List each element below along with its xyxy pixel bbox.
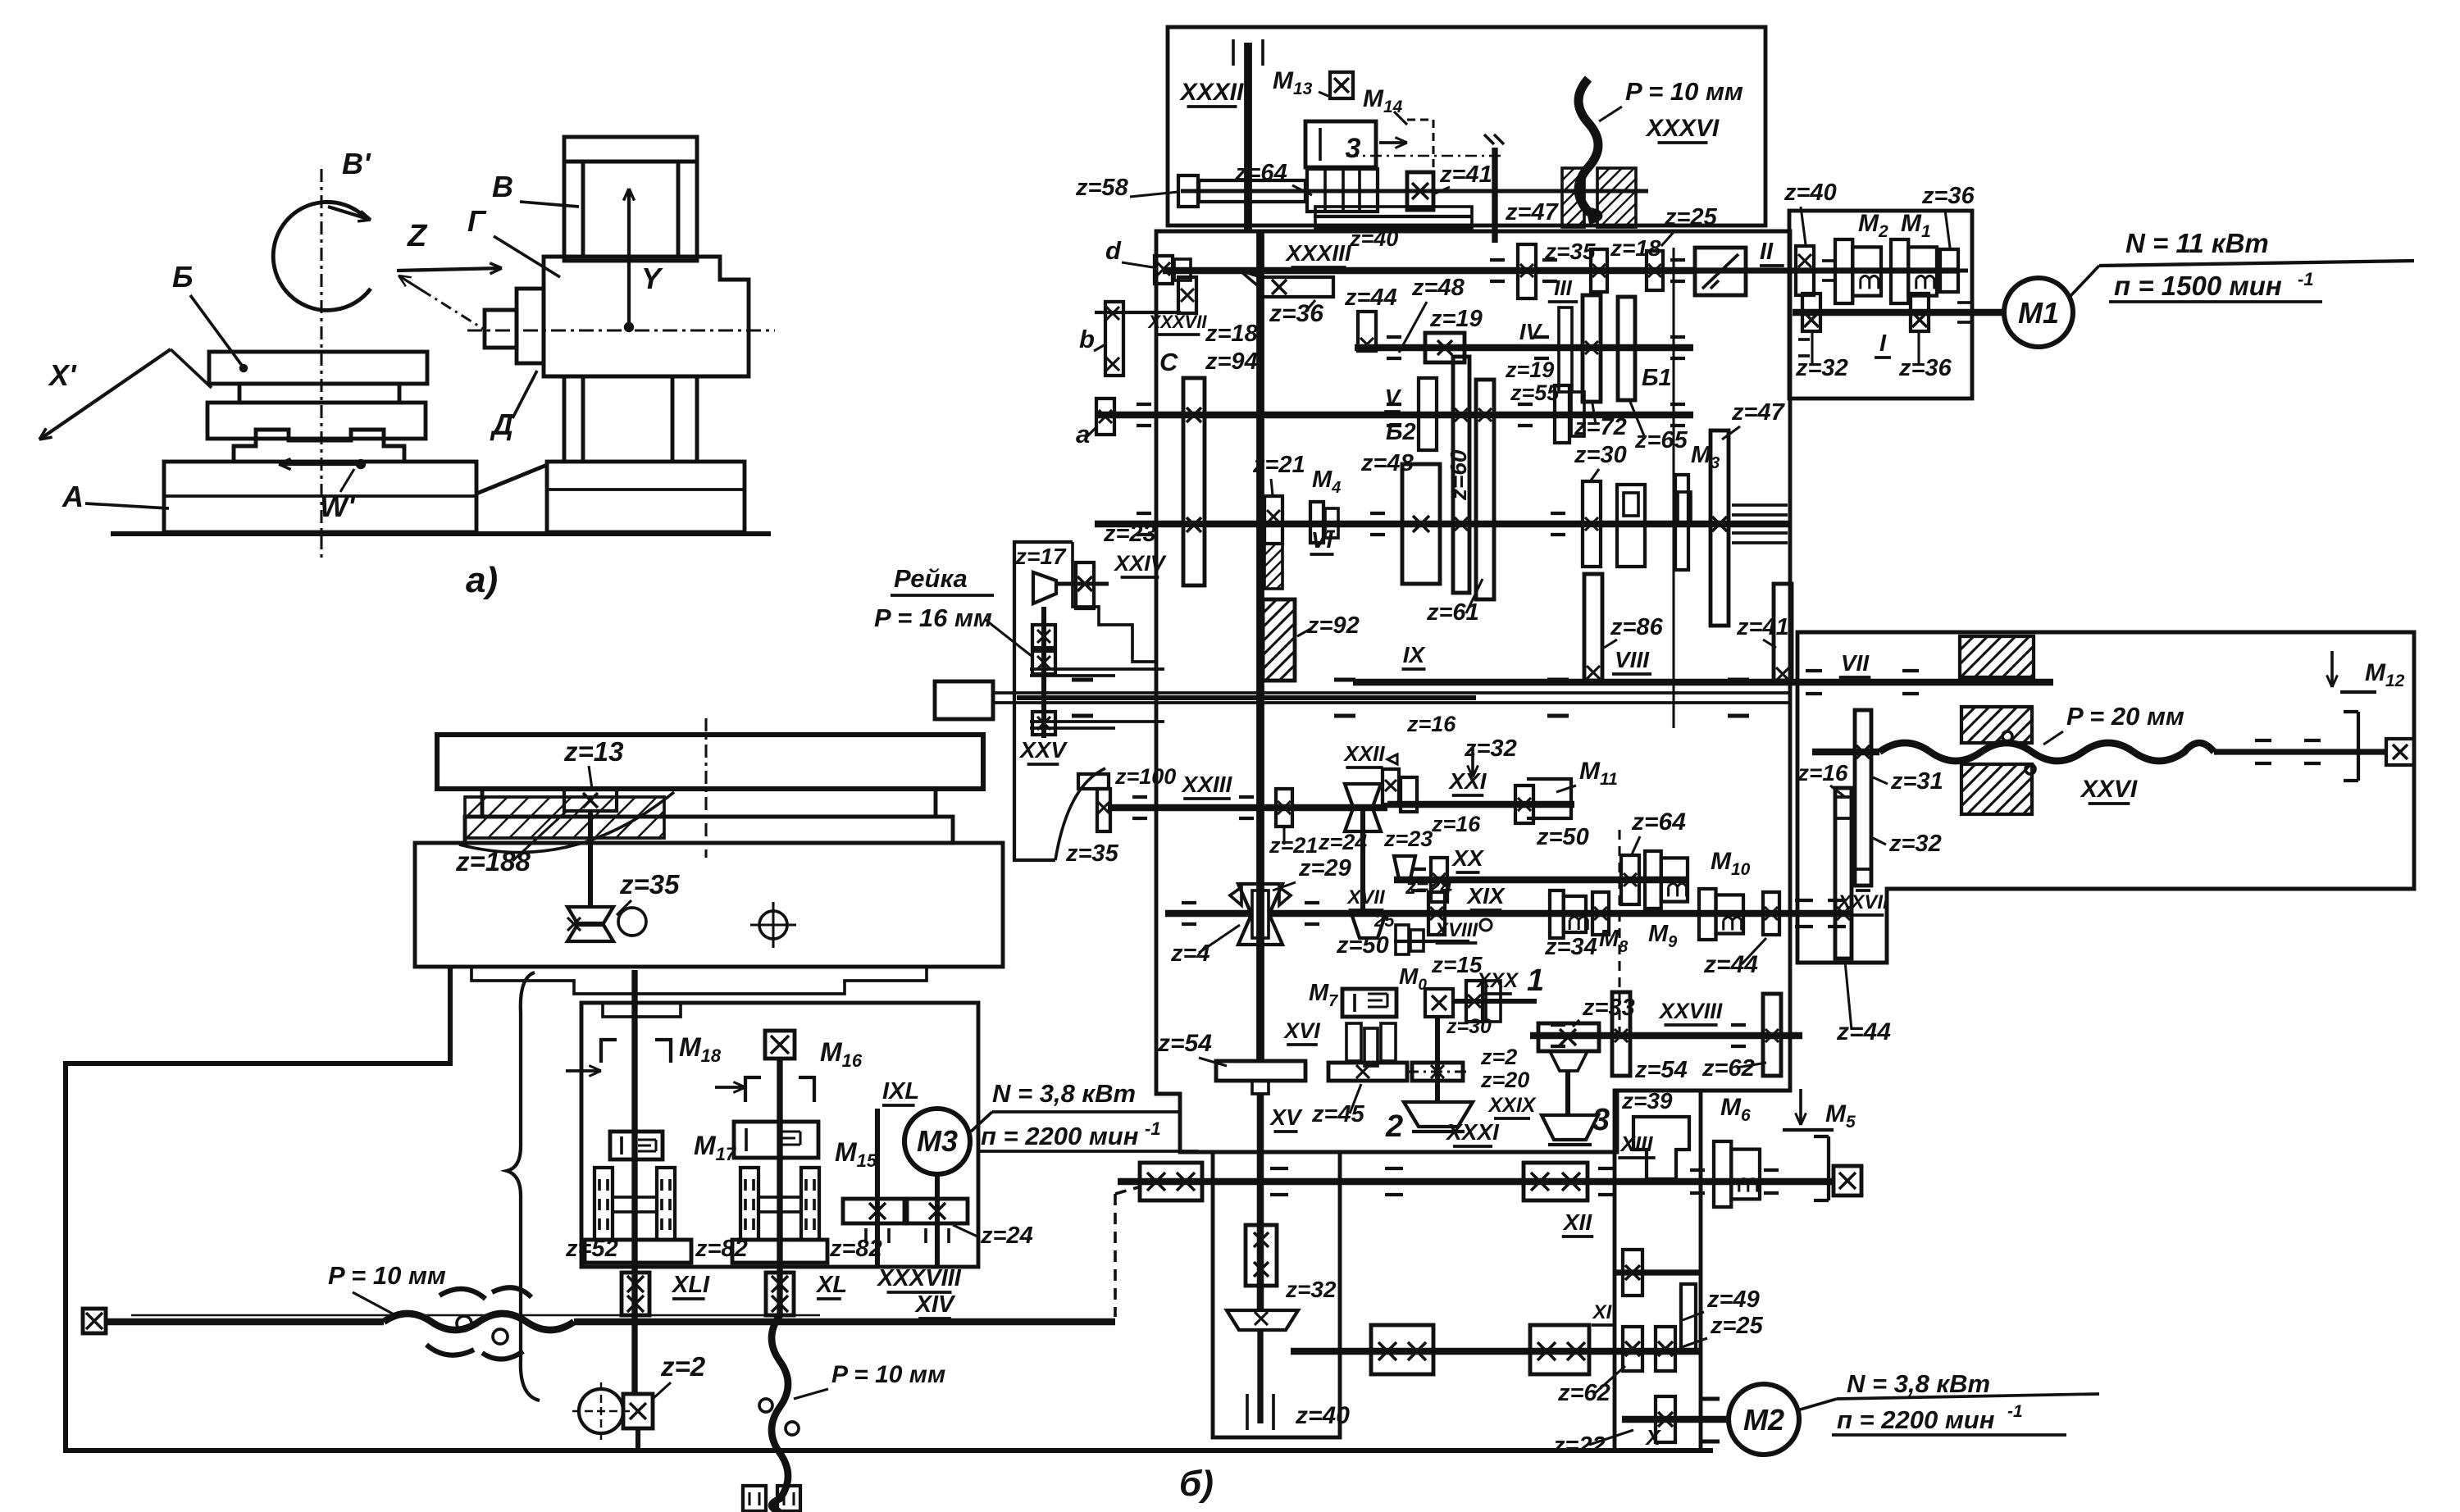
svg-text:P = 16 мм: P = 16 мм <box>874 603 992 632</box>
gear z=86 tall <box>1584 574 1602 681</box>
solenoid 3 box <box>1305 121 1376 167</box>
svg-text:2: 2 <box>1385 1109 1403 1144</box>
vertical shaft from worm <box>588 811 593 907</box>
svg-text:z=15: z=15 <box>1431 952 1483 977</box>
svg-text:B': B' <box>342 147 371 180</box>
gear z=82 plate <box>732 1240 827 1263</box>
gear XXVII z=44 tall <box>1835 788 1852 959</box>
table top Б <box>209 352 427 384</box>
svg-text:XXV: XXV <box>1018 737 1068 763</box>
rotation circle B' <box>273 202 371 310</box>
gear z=92 hatched <box>1263 599 1295 681</box>
svg-text:XXIII: XXIII <box>1181 772 1233 797</box>
bevel below z33 <box>1550 1051 1588 1071</box>
drawbar anchor box <box>935 681 993 719</box>
svg-text:XIII: XIII <box>1619 1132 1653 1156</box>
svg-text:P = 10 мм: P = 10 мм <box>1625 77 1743 106</box>
clutch M16 bracket <box>745 1077 761 1102</box>
arrow M14 <box>1379 141 1407 144</box>
gear cartridge column2 <box>740 1168 758 1240</box>
svg-text:XXXI: XXXI <box>1445 1119 1500 1145</box>
spindle head housing <box>1156 231 1790 1152</box>
bearing dashes IV <box>1387 335 1401 339</box>
clutch M10 <box>1645 851 1661 909</box>
bearing XL <box>766 1273 794 1315</box>
svg-text:z=18: z=18 <box>1610 235 1661 261</box>
svg-text:XVIII: XVIII <box>1433 919 1478 941</box>
arrow B' <box>328 207 371 220</box>
svg-text:z=47: z=47 <box>1731 399 1786 426</box>
screw nut hatched <box>1562 168 1584 227</box>
screw balls <box>759 1399 772 1412</box>
spindle bearing dashes <box>1072 678 1093 682</box>
gear z=64 XX <box>1621 855 1639 904</box>
gear z=41 top <box>1407 172 1433 210</box>
work table top plate <box>437 735 983 789</box>
svg-text:N = 11 кВт: N = 11 кВт <box>2125 228 2269 258</box>
svg-text:z=62: z=62 <box>1701 1055 1755 1082</box>
svg-text:IXL: IXL <box>882 1078 919 1104</box>
rack pocket housing <box>1014 542 1073 860</box>
cross feed housing XII <box>1615 1091 1701 1451</box>
svg-text:z=25: z=25 <box>1710 1313 1764 1339</box>
svg-text:3: 3 <box>1592 1103 1610 1137</box>
motor M1 leader <box>2070 266 2099 297</box>
svg-text:z=82: z=82 <box>829 1236 882 1262</box>
feed gearbox top notch <box>603 1003 681 1017</box>
table plate lower <box>207 403 426 439</box>
svg-text:XVII: XVII <box>1346 886 1386 909</box>
svg-text:C: C <box>1159 348 1178 376</box>
screw nut hatched upper <box>1961 707 2032 743</box>
svg-text:z=34: z=34 <box>1544 934 1597 960</box>
svg-text:X': X' <box>48 358 77 392</box>
svg-text:z=32: z=32 <box>1888 831 1942 857</box>
screw nut hatched lower <box>1961 764 2032 814</box>
svg-text:z=35: z=35 <box>619 869 680 899</box>
gear z=36 clutch upper <box>1940 249 1958 292</box>
gear z=61 tall <box>1476 380 1494 599</box>
machine base A <box>164 462 476 532</box>
svg-text:Д: Д <box>490 408 513 441</box>
svg-text:Рейка: Рейка <box>894 564 968 593</box>
svg-text:II: II <box>1760 239 1774 265</box>
svg-text:VII: VII <box>1841 650 1870 676</box>
svg-text:п = 1500 мин: п = 1500 мин <box>2114 271 2282 301</box>
svg-text:z=58: z=58 <box>1075 175 1129 201</box>
svg-text:z=48: z=48 <box>1411 275 1465 301</box>
bearing z=32 on XV <box>1246 1225 1277 1286</box>
nut M12 bracket <box>2357 712 2360 781</box>
gear z=65 <box>1618 297 1635 400</box>
shaft XXVIII <box>1530 1032 1802 1040</box>
svg-text:z=23: z=23 <box>1383 827 1433 851</box>
svg-text:z=22: z=22 <box>1552 1432 1606 1459</box>
svg-text:п = 2200 мин: п = 2200 мин <box>981 1122 1139 1150</box>
svg-text:z=94: z=94 <box>1205 348 1258 375</box>
svg-text:z=29: z=29 <box>1298 855 1351 881</box>
shaft XXXV <box>1314 215 1472 218</box>
clutch M1 <box>1891 239 1908 303</box>
column legs <box>563 376 567 462</box>
svg-text:z=13: z=13 <box>563 736 623 767</box>
gear cluster XXII <box>1383 769 1399 804</box>
svg-text:V: V <box>1385 385 1402 410</box>
shaft III-XXXIII <box>1163 267 1695 275</box>
leadscrew X end bearing <box>83 1309 106 1333</box>
svg-text:z=36: z=36 <box>1898 355 1952 381</box>
arrow M12 <box>2330 651 2334 687</box>
shaft column M16 <box>777 1059 782 1315</box>
gear a <box>1096 398 1114 435</box>
gear z=58 <box>1178 175 1198 207</box>
bearing box XIII left <box>1140 1163 1202 1200</box>
dashes M2 shaft <box>1701 1397 1720 1401</box>
svg-text:z=19: z=19 <box>1505 358 1554 382</box>
motor M2 <box>1729 1384 1799 1455</box>
vertical shaft XXXII top <box>1244 43 1252 231</box>
svg-text:M1: M1 <box>2018 296 2059 330</box>
clutch M5 bracket <box>1827 1136 1830 1200</box>
label M7 pointer <box>1284 1099 1304 1120</box>
svg-text:P = 10 мм: P = 10 мм <box>831 1361 945 1388</box>
svg-text:25: 25 <box>1373 910 1395 931</box>
svg-text:z=25: z=25 <box>1664 204 1718 230</box>
vertical shaft XVII <box>1360 808 1365 913</box>
label XIV pointer <box>872 1328 902 1345</box>
gear z=24 XX <box>1431 858 1447 902</box>
plate XXXV <box>1315 207 1472 228</box>
clutch M4 <box>1310 502 1323 543</box>
svg-text:XXVI: XXVI <box>2080 776 2138 803</box>
rack end bearing <box>1032 712 1055 735</box>
shaft XXXII spline marks <box>1232 39 1235 66</box>
gear on IXL <box>843 1199 904 1223</box>
arrow to M16 <box>715 1086 745 1089</box>
gear z=41 tall <box>1774 584 1792 681</box>
console body <box>415 843 1003 967</box>
svg-text:z=36: z=36 <box>1269 300 1323 327</box>
svg-text:z=2: z=2 <box>1480 1045 1517 1069</box>
arrow M5 <box>1799 1089 1802 1125</box>
arrow to M18 <box>566 1069 601 1073</box>
svg-text:z=188: z=188 <box>455 846 531 877</box>
shaft I line <box>1793 309 2004 317</box>
gear z=36 clutch lower <box>1911 294 1929 331</box>
rack pocket steps <box>1073 542 1156 662</box>
shaft to M2 <box>1622 1416 1727 1423</box>
clutch M3 head <box>1675 475 1688 570</box>
clutch M2 <box>1835 239 1852 303</box>
svg-text:XXXVIII: XXXVIII <box>876 1265 961 1291</box>
svg-text:I: I <box>1879 330 1887 357</box>
bearing dashes XXIII <box>1132 795 1147 799</box>
coupling II box <box>1695 248 1746 295</box>
svg-text:z=47: z=47 <box>1505 199 1560 225</box>
shaft XII inner <box>1615 1269 1701 1275</box>
cartridge connector col1 <box>613 1197 657 1212</box>
dashed bracket <box>1407 120 1433 167</box>
svg-text:XXVII: XXVII <box>1836 891 1889 913</box>
clutch M8 <box>1550 890 1564 938</box>
svg-text:III: III <box>1554 276 1572 300</box>
gear XXVIII left tall <box>1612 992 1630 1076</box>
shaft XIII <box>1118 1178 1834 1186</box>
svg-text:z=50: z=50 <box>1336 932 1389 959</box>
svg-text:N = 3,8 кВт: N = 3,8 кВт <box>992 1079 1136 1108</box>
svg-text:z=49: z=49 <box>1706 1287 1760 1313</box>
bearing dashes clutch box <box>1822 259 1835 262</box>
plate z=45 left <box>1328 1063 1407 1081</box>
svg-text:z=44: z=44 <box>1836 1018 1891 1045</box>
svg-text:VIII: VIII <box>1615 647 1650 672</box>
clutch M13 box <box>1330 72 1353 98</box>
svg-text:Б1: Б1 <box>1642 365 1672 391</box>
spindle nose Д <box>485 310 517 348</box>
gear z=50 XXI <box>1515 786 1533 823</box>
svg-text:z=54: z=54 <box>1157 1030 1212 1057</box>
svg-text:XXXII: XXXII <box>1179 79 1244 106</box>
gear z=34 <box>1592 892 1609 935</box>
svg-text:z=72: z=72 <box>1574 414 1627 440</box>
svg-text:z=40: z=40 <box>1295 1402 1350 1429</box>
column tower B <box>564 137 697 261</box>
shaft IV <box>1355 344 1693 352</box>
free nut strands <box>440 1289 485 1299</box>
svg-text:P = 10 мм: P = 10 мм <box>328 1261 446 1290</box>
clutch M0 box <box>1425 989 1453 1017</box>
stub spline marks <box>1484 134 1494 144</box>
spindle guide dashes left <box>1030 667 1164 671</box>
clutch E column1 <box>610 1132 663 1159</box>
svg-text:z=48: z=48 <box>1360 450 1414 476</box>
gear z=32 clutch <box>1802 294 1820 331</box>
screw P=10 vertical <box>772 1315 788 1512</box>
motor M1 <box>2004 278 2073 347</box>
leadscrew end bearing <box>2386 739 2414 765</box>
bearing XLI <box>622 1273 649 1315</box>
gear z=60 tall <box>1453 357 1469 593</box>
svg-text:IX: IX <box>1403 642 1427 667</box>
gear cluster z=64 <box>1307 169 1378 212</box>
svg-text:Z: Z <box>407 219 428 253</box>
gear cartridge column1 <box>594 1168 613 1240</box>
svg-text:z=55: z=55 <box>1510 380 1560 405</box>
table drive housing <box>1797 632 2414 963</box>
bevel 2 XXXI <box>1404 1102 1473 1127</box>
wire console to frame <box>66 967 1713 1451</box>
svg-text:XXI: XXI <box>1447 768 1487 794</box>
dashes XIII <box>1270 1167 1288 1170</box>
shaft XXIV <box>1056 582 1109 586</box>
svg-text:XXIX: XXIX <box>1487 1094 1537 1117</box>
bevel XX left <box>1394 856 1415 879</box>
gear on M3 shaft <box>907 1199 968 1223</box>
svg-text:z=31: z=31 <box>1890 768 1943 795</box>
dashes M6 <box>1690 1168 1705 1172</box>
worm wheel z=188 hatched sector <box>465 797 664 838</box>
column base <box>547 462 745 532</box>
speed clutch housing <box>1789 211 1972 398</box>
column2 top bearing <box>765 1031 795 1059</box>
motor M2 leader <box>1797 1399 1837 1410</box>
arrow XXI <box>1471 748 1474 777</box>
gear Б2 <box>1419 378 1437 450</box>
svg-text:a): a) <box>466 560 498 600</box>
bearing box XI left <box>1371 1325 1433 1374</box>
svg-text:Б2: Б2 <box>1386 419 1416 445</box>
svg-text:z=44: z=44 <box>1344 285 1397 311</box>
svg-text:z=54: z=54 <box>1634 1057 1688 1083</box>
clutch M6 <box>1714 1141 1731 1207</box>
svg-text:z=100: z=100 <box>1114 764 1176 789</box>
shaft XXXIV <box>1181 189 1648 194</box>
svg-text:M3: M3 <box>917 1124 958 1158</box>
gear z=30 pair <box>1583 481 1601 567</box>
free nut balls <box>457 1316 471 1331</box>
gear z=44 head <box>1358 312 1376 351</box>
gear z=33 plate <box>1538 1023 1599 1051</box>
feed gearbox housing <box>581 1003 978 1267</box>
console crosshair <box>759 911 787 939</box>
clutch M18 bracket <box>601 1040 617 1063</box>
svg-text:XXVIII: XXVIII <box>1658 999 1723 1023</box>
svg-text:b: b <box>1079 325 1095 353</box>
bearing box XI right <box>1530 1325 1589 1374</box>
gears z19-z55 <box>1555 385 1569 443</box>
bearing dashes V <box>1137 403 1151 406</box>
shaft IXL column <box>875 1109 880 1265</box>
gear on M2 shaft <box>1656 1396 1675 1442</box>
shaft II <box>1648 267 1960 273</box>
shaft XI horizontal <box>1291 1348 1701 1355</box>
svg-text:z=40: z=40 <box>1349 226 1398 251</box>
svg-text:z=24: z=24 <box>1405 874 1453 899</box>
svg-text:XV: XV <box>1269 1104 1303 1130</box>
svg-text:-1: -1 <box>2007 1402 2023 1421</box>
gear z=15 <box>1466 981 1483 1022</box>
spindle head Г <box>544 257 749 376</box>
z=2 index circle <box>579 1389 623 1433</box>
bearing dashes XXVIII <box>1551 1023 1565 1027</box>
svg-text:z=17: z=17 <box>1014 544 1067 569</box>
plate IV <box>1559 307 1572 392</box>
svg-text:z=39: z=39 <box>1621 1088 1673 1114</box>
work table plate 2 <box>482 789 936 817</box>
plate z=45 right <box>1412 1063 1463 1081</box>
gear z=36 bevel XXXIII <box>1261 277 1333 297</box>
clutch rod XX dashed <box>1618 830 1620 1035</box>
gear z=21 <box>1264 496 1282 544</box>
dashdot link XVI <box>1407 1070 1466 1073</box>
gear z=30 XXX <box>1486 981 1501 1022</box>
svg-text:z=45: z=45 <box>1311 1101 1365 1127</box>
svg-text:z=82: z=82 <box>695 1236 748 1262</box>
svg-text:XI: XI <box>1592 1301 1613 1323</box>
gear XXVII z=16 tall <box>1855 710 1871 886</box>
svg-text:z=41: z=41 <box>1736 614 1789 640</box>
gears on XI inner <box>1623 1327 1642 1371</box>
plate z=54 <box>1216 1061 1305 1081</box>
svg-text:XLI: XLI <box>671 1272 710 1298</box>
svg-text:z=64: z=64 <box>1234 160 1287 186</box>
stepped gear z=39 <box>1633 1117 1689 1179</box>
gear z=94 tall <box>1183 378 1205 585</box>
svg-text:z=16: z=16 <box>1431 812 1481 836</box>
svg-text:IV: IV <box>1519 319 1543 344</box>
dashdot axis top <box>1346 155 1504 157</box>
shaft XXIII <box>1108 804 1387 812</box>
brace feed group <box>507 972 540 1400</box>
gear b column <box>1105 302 1123 376</box>
svg-text:z=16: z=16 <box>1797 760 1848 786</box>
shaft VII dashes <box>1806 669 1822 672</box>
shaft XV lower <box>1257 1094 1264 1312</box>
table centerline <box>320 169 322 562</box>
clutch M9 <box>1699 889 1716 940</box>
svg-text:z=24: z=24 <box>1318 830 1367 854</box>
gear on XII <box>1623 1250 1642 1296</box>
worm wheel arc <box>459 792 674 853</box>
gear z=52 plate <box>585 1240 691 1263</box>
svg-text:z=50: z=50 <box>1536 824 1589 850</box>
vertical stub shaft XXXV <box>1492 148 1497 243</box>
gear z=18 III <box>1591 249 1607 292</box>
shaft XXX <box>1453 999 1537 1004</box>
svg-text:XX: XX <box>1451 845 1485 871</box>
gear z=48 big <box>1402 464 1440 584</box>
gear z=35 III <box>1518 244 1536 298</box>
motor M3 <box>904 1109 970 1174</box>
svg-text:z=30: z=30 <box>1574 442 1627 468</box>
bevel 3 XXIX <box>1542 1115 1598 1140</box>
table plate middle <box>239 384 399 403</box>
worm z=13 gear <box>564 790 617 811</box>
clutch M11 bracket <box>1527 779 1571 818</box>
svg-text:3: 3 <box>1346 133 1361 164</box>
svg-text:z=41: z=41 <box>1439 162 1492 188</box>
spindle axis <box>467 329 775 331</box>
shaft XIII end bearing <box>1834 1166 1861 1195</box>
svg-text:z=64: z=64 <box>1631 808 1686 836</box>
column1 shaft bottom <box>635 1428 640 1450</box>
shaft M3 column <box>935 1174 940 1265</box>
svg-text:XXXVI: XXXVI <box>1645 115 1720 142</box>
gear stack XVI <box>1346 1023 1361 1061</box>
bevel z=29 <box>1238 884 1282 910</box>
shaft b-C <box>1095 311 1181 314</box>
svg-text:XIX: XIX <box>1465 883 1506 909</box>
svg-text:-1: -1 <box>1145 1118 1161 1139</box>
machine sketch a) ground line <box>111 531 771 536</box>
Z diagonal dash arrow <box>401 277 487 331</box>
tall gear z=49 <box>1681 1284 1696 1351</box>
leadscrew XXVI <box>1812 749 1879 756</box>
svg-text:z=35: z=35 <box>1065 840 1119 867</box>
bevel z=40 plate <box>1227 1310 1298 1330</box>
gear C <box>1178 277 1196 313</box>
clutch E column2 <box>734 1122 818 1158</box>
svg-text:б): б) <box>1179 1464 1214 1504</box>
gear d cluster <box>1155 256 1173 284</box>
svg-text:z=16: z=16 <box>1406 712 1456 736</box>
bearing dashes VI <box>1137 512 1151 515</box>
svg-text:XXXIII: XXXIII <box>1284 240 1352 266</box>
gear XXVIII right tall <box>1763 994 1781 1076</box>
svg-text:п = 2200 мин: п = 2200 мин <box>1837 1405 1995 1434</box>
screw balls XXVI <box>2002 731 2012 741</box>
base diagonal <box>476 465 547 494</box>
